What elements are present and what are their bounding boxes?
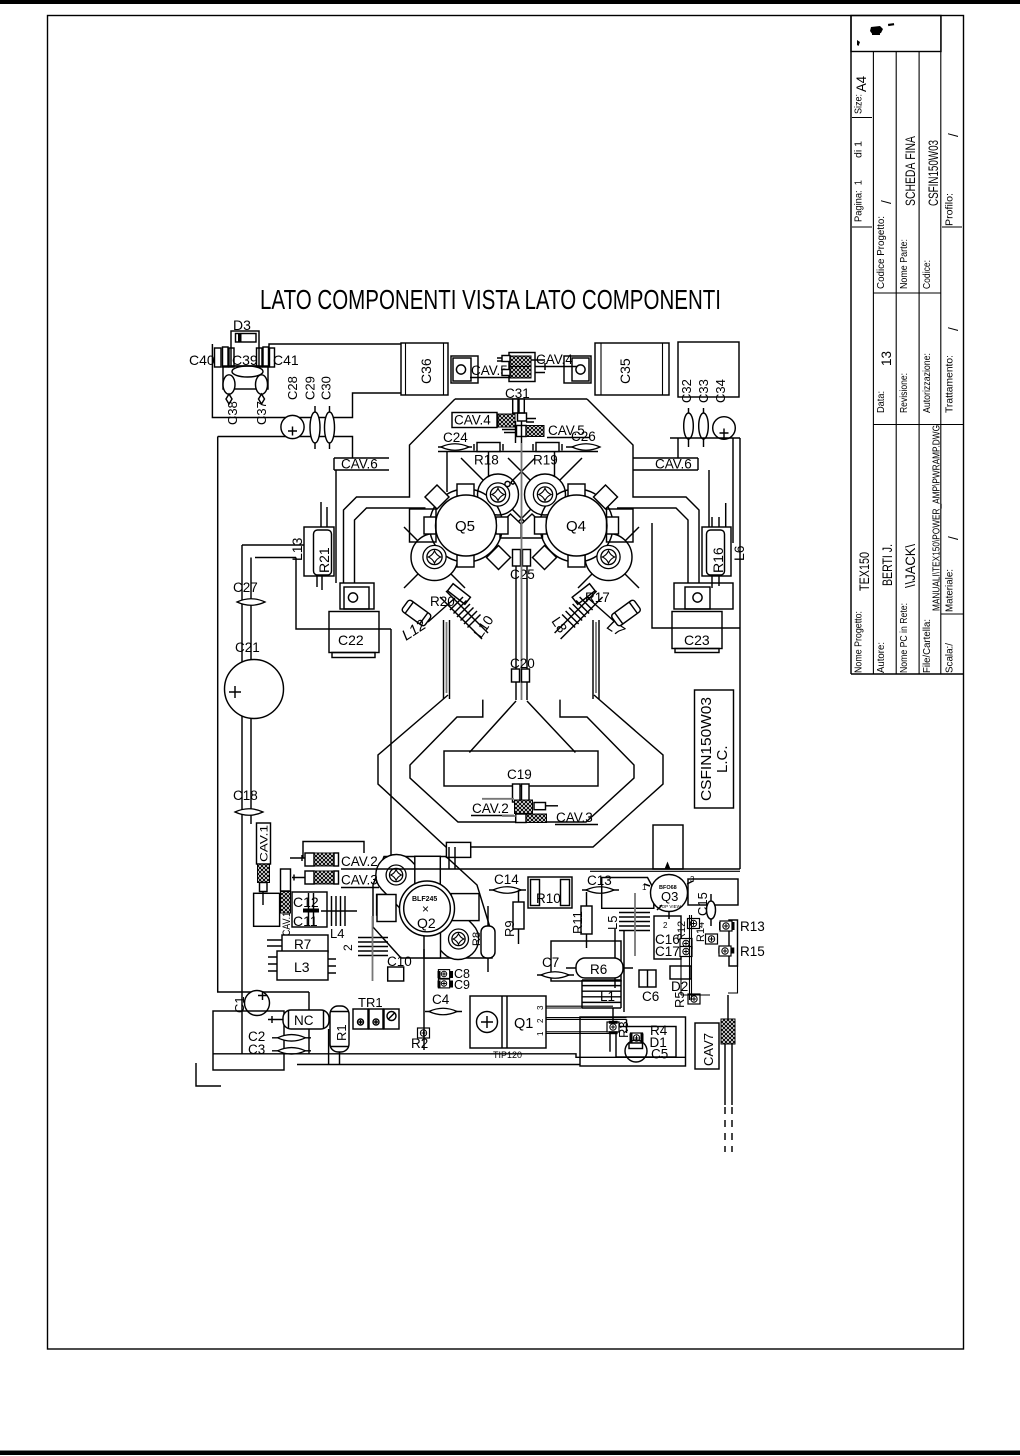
Q4 body bbox=[546, 495, 607, 556]
C34 electrolytic bbox=[713, 417, 736, 440]
svg-text:L6: L6 bbox=[731, 545, 747, 561]
L5 bars bbox=[619, 913, 650, 931]
svg-text:C23: C23 bbox=[684, 632, 710, 648]
V feed bbox=[469, 701, 575, 753]
svg-text:SCHEDA FINA: SCHEDA FINA bbox=[903, 136, 918, 206]
svg-text:Data:: Data: bbox=[876, 391, 887, 413]
CAV.6 right label bbox=[633, 458, 698, 470]
C31 body bbox=[513, 399, 518, 413]
svg-text:C34: C34 bbox=[713, 379, 728, 403]
C8 bbox=[438, 970, 449, 979]
cell1 tick size/pagina bbox=[852, 117, 872, 119]
Q3 stub bbox=[653, 825, 683, 869]
conn pins right bbox=[257, 347, 275, 367]
wire loop right bbox=[652, 523, 740, 628]
C24 cap bbox=[438, 446, 472, 448]
screw BL pad bbox=[411, 534, 458, 581]
R18 bbox=[477, 443, 500, 452]
CSFIN box bbox=[695, 690, 734, 808]
svg-text:R18: R18 bbox=[474, 453, 499, 468]
C31 feed wires bbox=[516, 421, 522, 443]
C19 stub rect bbox=[444, 751, 598, 786]
mid left wire bbox=[250, 558, 252, 825]
C20 bbox=[512, 669, 520, 682]
rail bbox=[438, 451, 598, 453]
R8 pill bbox=[481, 926, 495, 958]
bottom bus bbox=[213, 1029, 686, 1065]
svg-text:CAV.2: CAV.2 bbox=[472, 801, 509, 816]
svg-text:C12: C12 bbox=[293, 894, 319, 910]
svg-text:Q2: Q2 bbox=[417, 915, 436, 931]
Q2 pour octagon bbox=[373, 857, 492, 959]
TO220 tab B bbox=[564, 356, 591, 383]
svg-text:L5: L5 bbox=[605, 916, 620, 930]
L8 coil bbox=[562, 597, 593, 628]
pour top edge bbox=[455, 398, 587, 400]
svg-text:R13: R13 bbox=[740, 919, 765, 934]
R7 bbox=[282, 935, 328, 952]
R3 bbox=[607, 1022, 619, 1032]
svg-text:CAV.6: CAV.6 bbox=[341, 457, 378, 472]
CAV.4 coax bottom bbox=[510, 367, 531, 379]
svg-text:R16: R16 bbox=[710, 547, 726, 573]
CAV.4 mid coax bbox=[498, 414, 515, 427]
C28 electrolytic bbox=[281, 415, 304, 438]
svg-text:CAV.4: CAV.4 bbox=[454, 413, 491, 428]
R8 leads bbox=[487, 906, 489, 972]
D1 bbox=[625, 1040, 647, 1062]
svg-text:CAV.6: CAV.6 bbox=[655, 457, 692, 472]
svg-text:TOP VIEW: TOP VIEW bbox=[659, 904, 682, 909]
X diagonals screw TR bbox=[508, 458, 582, 532]
cluster box bbox=[580, 1017, 686, 1066]
R6 bbox=[576, 958, 623, 978]
Q2 body bbox=[404, 885, 451, 932]
svg-text:C3: C3 bbox=[248, 1042, 265, 1057]
svg-text:C18: C18 bbox=[233, 788, 258, 803]
svg-text:C38: C38 bbox=[225, 401, 240, 425]
L1 bbox=[582, 980, 621, 1008]
svg-text:C4: C4 bbox=[432, 992, 450, 1007]
row divider 2 bbox=[895, 52, 897, 675]
R10 bbox=[528, 877, 572, 908]
Q3 pour bbox=[665, 862, 671, 870]
C21 body bbox=[225, 660, 284, 719]
svg-text:TIP120: TIP120 bbox=[493, 1050, 522, 1060]
screw BL bbox=[423, 545, 446, 568]
right cluster wires bbox=[681, 915, 738, 1000]
Q5 lead stubs bbox=[424, 517, 436, 534]
C10 body bbox=[388, 967, 404, 981]
wire CAV6R down bbox=[708, 470, 710, 527]
Q1 pin wires bbox=[546, 1006, 627, 1033]
svg-text:LATO COMPONENTI VISTA LATO: LATO COMPONENTI VISTA LATO COMPONENTI bbox=[260, 284, 721, 315]
C6 bbox=[639, 970, 656, 987]
pour right inner bbox=[617, 508, 688, 583]
cell5 tick profilo bbox=[942, 226, 962, 228]
svg-text:R1: R1 bbox=[334, 1024, 349, 1041]
R13/R15 bracket bbox=[729, 920, 738, 966]
C23 body bbox=[672, 612, 722, 649]
cell5 divider materiale bbox=[941, 613, 964, 615]
svg-text:×: × bbox=[422, 902, 429, 916]
CAV7 cable bbox=[725, 1044, 732, 1105]
svg-text:CAV.1: CAV.1 bbox=[259, 825, 271, 862]
svg-text:CAV.3: CAV.3 bbox=[341, 873, 378, 888]
X diagonals screw BR bbox=[578, 527, 639, 588]
svg-text:/: / bbox=[879, 200, 894, 204]
screw Q2 BR bbox=[449, 929, 469, 949]
conn pins left bbox=[215, 347, 235, 367]
diamond Q4 UR bbox=[594, 485, 618, 509]
C15 cap bbox=[710, 894, 712, 926]
svg-text:C40: C40 bbox=[189, 352, 215, 368]
R21 body bbox=[314, 530, 332, 575]
svg-text:C37: C37 bbox=[254, 401, 269, 425]
screw TR bbox=[533, 483, 556, 506]
svg-text:2: 2 bbox=[663, 921, 668, 930]
R9 bbox=[513, 902, 524, 929]
svg-text:Nome PC in Rete:: Nome PC in Rete: bbox=[899, 603, 910, 673]
Q2 flange capsule bbox=[367, 846, 487, 968]
svg-text:2: 2 bbox=[536, 1018, 545, 1023]
CAV7 label box bbox=[695, 1023, 719, 1069]
ring inner bbox=[410, 700, 634, 822]
Q2 lead top bbox=[415, 856, 441, 884]
svg-text:C27: C27 bbox=[233, 580, 258, 595]
wire under caps bbox=[670, 438, 740, 869]
svg-text:/: / bbox=[946, 133, 961, 137]
C38 cap body bbox=[223, 375, 235, 394]
screw BR bbox=[597, 545, 620, 568]
Q3 pour pentagon bbox=[602, 878, 654, 909]
svg-text:TEX150: TEX150 bbox=[857, 552, 872, 591]
L10 coil bbox=[450, 597, 481, 628]
R20 body bbox=[448, 584, 471, 605]
central feed lines bbox=[516, 566, 527, 700]
svg-text:C19: C19 bbox=[507, 767, 532, 782]
section bus bbox=[341, 868, 740, 870]
bottom black bar bbox=[0, 1451, 1020, 1456]
svg-text:C24: C24 bbox=[443, 430, 468, 445]
svg-text:C36: C36 bbox=[418, 358, 434, 384]
svg-text:3: 3 bbox=[536, 1005, 545, 1010]
svg-text:Autore:: Autore: bbox=[876, 642, 887, 673]
D3 outline bbox=[231, 331, 259, 366]
svg-text:CAV.1: CAV.1 bbox=[281, 912, 293, 936]
svg-text:A4: A4 bbox=[854, 76, 869, 92]
R12/R14 pots bbox=[688, 919, 700, 929]
R2 bbox=[418, 1028, 430, 1038]
svg-text:L4: L4 bbox=[330, 926, 344, 941]
svg-text:R5: R5 bbox=[672, 991, 687, 1008]
C22 body bbox=[329, 612, 379, 653]
Q2 outer ring bbox=[400, 881, 455, 936]
C16 label bbox=[654, 916, 681, 959]
C9 bbox=[438, 979, 449, 988]
svg-text:BERTI J.: BERTI J. bbox=[880, 544, 895, 586]
title block bottom edge bbox=[851, 673, 964, 675]
C27 cap bbox=[237, 599, 265, 606]
C33 cap bbox=[703, 408, 705, 447]
C39 flat ellipse bbox=[232, 366, 263, 377]
Q5 flange bbox=[430, 489, 503, 562]
R11 bbox=[581, 906, 592, 934]
wire box above bbox=[303, 842, 364, 859]
screw TR pad bbox=[525, 474, 566, 515]
CAV.2 left coax bbox=[305, 853, 314, 866]
R15 bbox=[719, 946, 731, 956]
NC pill bbox=[283, 1010, 329, 1029]
svg-text:C35: C35 bbox=[617, 358, 633, 384]
TITLEBLOCK bbox=[851, 16, 964, 675]
CAV.3 mid coax bbox=[516, 814, 526, 823]
logo glyph bbox=[870, 26, 883, 35]
C35 box bbox=[595, 343, 669, 395]
TR1 pots bbox=[353, 1009, 368, 1029]
CAV.1 cable bbox=[258, 864, 270, 883]
svg-text:CAV.4: CAV.4 bbox=[536, 352, 573, 367]
svg-text:/: / bbox=[946, 536, 961, 540]
Q5 body bbox=[436, 495, 497, 556]
svg-text:C9: C9 bbox=[454, 978, 470, 992]
CAV.3 left coax bbox=[305, 871, 314, 884]
svg-text:C17: C17 bbox=[655, 944, 680, 959]
C1 body bbox=[245, 991, 270, 1016]
svg-text:R9: R9 bbox=[502, 920, 517, 937]
Q2 lead right bbox=[451, 894, 479, 921]
C25 bbox=[513, 550, 521, 567]
screw BR pad bbox=[585, 534, 632, 581]
Q4 right wing bbox=[607, 509, 634, 542]
C32 cap bbox=[688, 408, 690, 447]
svg-text:MANUALI\TEX150\POWER_AMP\PWRAM: MANUALI\TEX150\POWER_AMP\PWRAMP.DWG bbox=[932, 425, 943, 611]
CAV.1 label box bbox=[257, 823, 271, 864]
row divider 1 bbox=[872, 52, 874, 675]
C21 plus bbox=[229, 686, 241, 698]
R21 leads bbox=[317, 502, 327, 590]
corner mark bbox=[196, 1063, 221, 1086]
pentagon house R bbox=[522, 514, 543, 538]
svg-text:C21: C21 bbox=[235, 640, 260, 655]
C22 tab bbox=[340, 583, 374, 609]
wire second bbox=[218, 437, 353, 459]
C11/C12 bars bbox=[309, 893, 314, 926]
svg-text:Profilo:: Profilo: bbox=[945, 193, 956, 226]
svg-text:C13: C13 bbox=[587, 873, 612, 888]
svg-text:Q3: Q3 bbox=[661, 889, 678, 904]
C28 plus bbox=[288, 427, 297, 436]
L12 lead bbox=[428, 598, 455, 622]
C3 cap bbox=[272, 1050, 311, 1052]
svg-text:File/Cartella:: File/Cartella: bbox=[922, 619, 933, 673]
divider codice-data cells2-4 bbox=[873, 292, 940, 294]
R21 box bbox=[304, 527, 334, 576]
CAV.4 mid label box bbox=[452, 413, 497, 428]
top black bar bbox=[0, 0, 1020, 4]
svg-text:1: 1 bbox=[642, 883, 647, 892]
svg-text:Trattamento:: Trattamento: bbox=[945, 355, 956, 413]
C19 cap bbox=[513, 784, 521, 802]
Q1 bbox=[470, 996, 546, 1048]
coax pins bbox=[497, 358, 545, 373]
screw Q2 TL bbox=[386, 865, 406, 885]
C32-34 box bbox=[678, 342, 739, 397]
svg-text:R10: R10 bbox=[536, 891, 561, 906]
L7 lead bbox=[588, 598, 615, 622]
svg-text:R2: R2 bbox=[411, 1036, 428, 1051]
svg-text:TR1: TR1 bbox=[358, 995, 383, 1010]
ring feeds right bbox=[593, 620, 599, 699]
C23 tab bbox=[674, 583, 733, 609]
L4 bars bbox=[332, 896, 346, 926]
Q3 body bbox=[651, 875, 688, 912]
svg-text:L3: L3 bbox=[294, 959, 310, 975]
diamond Q4 BL bbox=[533, 546, 557, 570]
R18 lead down bbox=[488, 452, 490, 478]
svg-text:C32: C32 bbox=[679, 379, 694, 403]
svg-text:Pagina: 1: Pagina: 1 bbox=[854, 180, 865, 222]
R16 box bbox=[702, 527, 731, 576]
svg-text:R11: R11 bbox=[570, 911, 585, 934]
C29 cap bbox=[314, 406, 316, 449]
D3 body bbox=[236, 334, 257, 343]
svg-text:C7: C7 bbox=[542, 955, 559, 970]
diamond Q5 BR bbox=[487, 546, 511, 570]
R19 bbox=[536, 443, 559, 452]
svg-text:C29: C29 bbox=[303, 376, 318, 400]
svg-text:2: 2 bbox=[341, 944, 355, 951]
R16 body bbox=[707, 530, 725, 575]
row divider 3 bbox=[918, 52, 920, 675]
svg-text:C28: C28 bbox=[285, 376, 300, 400]
wire CAV6L down bbox=[335, 470, 337, 583]
svg-text:L.C.: L.C. bbox=[714, 745, 731, 773]
title block left edge bbox=[850, 16, 852, 675]
svg-text:Codice:: Codice: bbox=[922, 260, 933, 289]
svg-text:Nome Progetto:: Nome Progetto: bbox=[854, 611, 865, 673]
wire loop left bbox=[242, 545, 391, 856]
svg-text:R6: R6 bbox=[590, 962, 607, 977]
svg-text:R7: R7 bbox=[294, 937, 311, 952]
svg-text:C41: C41 bbox=[273, 352, 299, 368]
Q4 lead stubs bbox=[535, 517, 547, 534]
svg-text:C22: C22 bbox=[338, 632, 364, 648]
svg-text:Q5: Q5 bbox=[455, 518, 475, 535]
pour right diagonal bbox=[587, 399, 699, 583]
L7 body bbox=[611, 599, 642, 627]
heatsink box bbox=[213, 1011, 284, 1070]
CAV.5 mid coax bbox=[517, 426, 527, 437]
svg-text:C26: C26 bbox=[571, 429, 596, 444]
screw TL marks bbox=[505, 481, 510, 486]
svg-text:Codice Progetto:: Codice Progetto: bbox=[876, 216, 887, 289]
svg-text:CSFIN150W03: CSFIN150W03 bbox=[926, 140, 941, 206]
svg-text:13: 13 bbox=[879, 351, 894, 366]
CAV.2 mid coax bbox=[515, 800, 533, 814]
X diagonals screw TL bbox=[461, 458, 535, 532]
svg-text:R8: R8 bbox=[471, 932, 483, 946]
pour left inner bbox=[355, 508, 426, 583]
svg-text:Revisione:: Revisione: bbox=[899, 373, 910, 413]
svg-text:C14: C14 bbox=[494, 872, 519, 887]
logo comma bbox=[857, 40, 860, 46]
svg-text:Scala:/: Scala:/ bbox=[945, 643, 956, 673]
svg-text:NC: NC bbox=[294, 1013, 314, 1028]
svg-text:L1: L1 bbox=[600, 989, 615, 1004]
wire top rail bbox=[269, 344, 401, 366]
long left bus bbox=[218, 437, 309, 1055]
R13 bbox=[720, 921, 732, 931]
R16 leads bbox=[712, 503, 726, 588]
X diagonals screw BL bbox=[404, 527, 465, 588]
R19 lead down bbox=[554, 452, 556, 478]
R17 body bbox=[572, 584, 595, 605]
svg-text:/: / bbox=[946, 327, 961, 331]
cluster box bbox=[223, 366, 268, 389]
C31 lower block bbox=[518, 413, 527, 421]
row divider 4 bbox=[940, 16, 942, 675]
svg-text:CAV.3: CAV.3 bbox=[556, 810, 593, 825]
svg-text:Autorizzazione:: Autorizzazione: bbox=[922, 353, 933, 413]
ring outer bbox=[378, 695, 663, 847]
svg-text:Q4: Q4 bbox=[566, 518, 586, 535]
D2 bbox=[670, 966, 691, 979]
ring feeds left bbox=[444, 620, 450, 699]
svg-text:CSFIN150W03: CSFIN150W03 bbox=[698, 697, 715, 801]
C2 cap bbox=[272, 1037, 311, 1039]
L12 body bbox=[401, 599, 432, 627]
ring stubs down bbox=[449, 847, 455, 869]
CAV.6 left label bbox=[334, 458, 389, 470]
C18 cap bbox=[235, 809, 263, 816]
Q2 bottom feed bbox=[423, 949, 425, 1050]
svg-text:R15: R15 bbox=[740, 944, 765, 959]
screw TL bbox=[486, 483, 509, 506]
R4 bbox=[631, 1033, 643, 1043]
screw TL pad bbox=[478, 474, 519, 515]
CAV.5 coax top bbox=[509, 353, 535, 382]
TO220 tab A bbox=[451, 356, 478, 383]
C11/C12 box bbox=[292, 892, 327, 927]
svg-text:Materiale:: Materiale: bbox=[945, 569, 956, 612]
C37 cap body bbox=[256, 375, 268, 394]
Q5 left wing bbox=[410, 509, 437, 542]
svg-text:Q1: Q1 bbox=[514, 1016, 533, 1032]
svg-text:C5: C5 bbox=[651, 1047, 668, 1062]
Q2 lead bottom bbox=[424, 932, 441, 958]
C24 lead down bbox=[446, 452, 448, 492]
svg-text:1: 1 bbox=[536, 1031, 545, 1036]
svg-text:\\JACK\: \\JACK\ bbox=[903, 544, 918, 588]
pentagon house L bbox=[500, 514, 521, 538]
R1 pill bbox=[330, 1006, 349, 1052]
C38 tail bbox=[226, 394, 232, 404]
tb text bbox=[854, 94, 956, 673]
svg-text:C33: C33 bbox=[696, 379, 711, 403]
svg-text:C6: C6 bbox=[642, 989, 659, 1004]
wire left loop bbox=[212, 344, 401, 418]
C37 tail bbox=[259, 394, 265, 404]
svg-text:R21: R21 bbox=[316, 547, 332, 573]
Q2 stub up bbox=[446, 842, 470, 857]
C30 cap bbox=[329, 406, 331, 449]
cell1 tick pagina bottom bbox=[852, 226, 872, 228]
logo box bbox=[851, 16, 941, 52]
Q2 lead left bbox=[377, 895, 396, 922]
svg-text:Nome Parte:: Nome Parte: bbox=[899, 239, 910, 289]
D3 band bbox=[238, 334, 242, 343]
